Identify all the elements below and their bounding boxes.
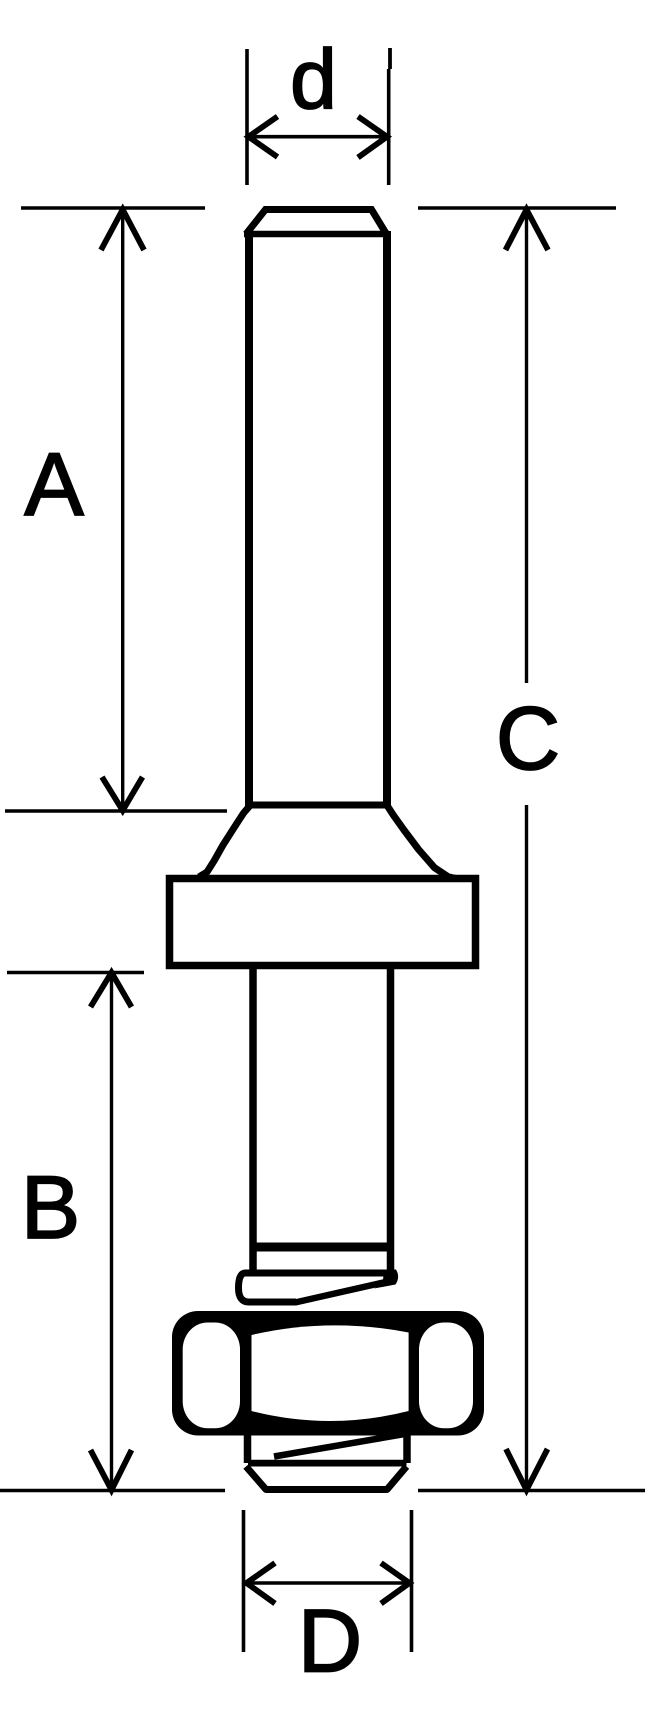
- dimension d: left arrowhead: [249, 117, 278, 158]
- bottom reference line right segment: [418, 1489, 645, 1493]
- svg-text:C: C: [496, 688, 560, 788]
- svg-text:B: B: [21, 1157, 80, 1257]
- dimension D: right arrowhead: [381, 1563, 410, 1604]
- A bottom reference line: [5, 809, 227, 813]
- dimension B: bottom arrowhead: [91, 1450, 132, 1490]
- dimension D: right extension line: [410, 1510, 414, 1652]
- bottom tip trapezoid: [246, 1467, 407, 1490]
- dimension d: right arrowhead: [358, 117, 387, 158]
- dimension A: top arrowhead: [101, 210, 144, 251]
- upper thread diagonal: [295, 1281, 390, 1303]
- dimension C: vertical line upper part: [525, 210, 528, 683]
- svg-text:d: d: [290, 32, 337, 126]
- dimension A: vertical line: [121, 210, 124, 809]
- dimension D: left arrowhead: [247, 1563, 276, 1604]
- dimension B: top arrowhead: [91, 973, 132, 1008]
- dimension D: left extension line: [242, 1510, 246, 1652]
- shank bottom line: [246, 802, 390, 809]
- dimension C: bottom arrowhead: [506, 1449, 548, 1490]
- bottom reference line left segment: [0, 1489, 225, 1493]
- nut center facet: [252, 1325, 409, 1421]
- upper thread outline: [239, 1273, 396, 1302]
- dimension C: top arrowhead: [506, 210, 549, 251]
- arbor groove upper line: [250, 1243, 393, 1252]
- nut left facet: [183, 1323, 240, 1429]
- dimension D: arrow line: [246, 1581, 410, 1585]
- shank top chamfer: [246, 210, 387, 236]
- left bell flare: [199, 805, 251, 877]
- dimension d: right extension line: [387, 69, 391, 185]
- svg-text:A: A: [24, 434, 84, 534]
- B top reference line: [7, 971, 144, 975]
- svg-text:D: D: [298, 1591, 362, 1691]
- nut body: [172, 1311, 484, 1436]
- upper thread right cap: [374, 1270, 398, 1289]
- arbor right edge: [387, 969, 395, 1274]
- lower thread diagonal: [274, 1434, 406, 1457]
- shank neck line: [244, 231, 389, 238]
- dimension d: left extension line: [245, 49, 249, 185]
- arbor left edge: [249, 969, 257, 1274]
- top reference line left segment: [21, 206, 205, 210]
- dimension C: vertical line lower part: [525, 805, 528, 1489]
- lower thread left edge: [244, 1430, 252, 1463]
- lower thread right edge: [403, 1430, 411, 1463]
- flange: [170, 879, 476, 966]
- dimension A: bottom arrowhead: [102, 777, 143, 811]
- shank left edge: [245, 231, 253, 806]
- dimension d: arrow line: [249, 135, 387, 139]
- dimension B: vertical line: [110, 974, 113, 1489]
- right bell flare: [387, 805, 456, 879]
- lower thread bottom line: [248, 1460, 407, 1467]
- shank right edge: [383, 231, 391, 806]
- nut right facet: [419, 1323, 473, 1429]
- dimension d: right extension line upper segment: [388, 48, 392, 69]
- top reference line right segment: [418, 206, 616, 210]
